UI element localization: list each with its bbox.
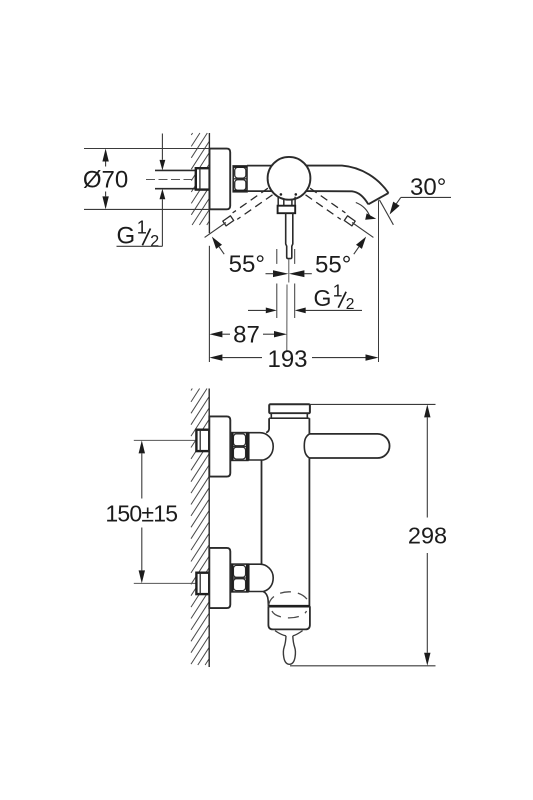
- outlet cup: [268, 606, 310, 629]
- 30 deg leader: [390, 197, 451, 214]
- 30 deg label: [410, 174, 446, 201]
- body neck: [266, 418, 309, 434]
- 55 deg centre arrows: [266, 270, 312, 277]
- svg-text:1: 1: [333, 280, 343, 300]
- lever body fillet: [304, 434, 309, 458]
- body left edge: [261, 460, 263, 564]
- 150 label: [105, 501, 177, 527]
- indicator dots: [280, 193, 298, 196]
- G1/2 label (bottom port): [314, 280, 355, 313]
- centreline bottom connection: [134, 582, 196, 584]
- G1/2 dimension arrows (bottom port): [248, 308, 362, 314]
- union nut at wall top: [196, 430, 209, 451]
- cap rim: [271, 413, 307, 418]
- 30 deg arc arrow: [356, 203, 376, 220]
- wall escutcheon top (front view): [209, 416, 230, 476]
- cartridge cap: [269, 404, 310, 413]
- 30 deg incline line: [379, 200, 393, 225]
- supply pipe (top view): [155, 170, 196, 188]
- hidden arc above outlet: [269, 592, 310, 606]
- 193 dimension: [209, 354, 378, 360]
- svg-text:150±15: 150±15: [105, 501, 177, 527]
- body right edge: [308, 458, 310, 606]
- dia70 extension lines: [84, 149, 209, 210]
- hex connection nut (top view): [233, 166, 247, 192]
- svg-text:87: 87: [233, 322, 260, 349]
- wall escutcheon bottom (front view): [209, 548, 230, 608]
- water droplet: [283, 636, 295, 664]
- svg-text:1: 1: [137, 217, 147, 237]
- wall face line (bottom view): [208, 389, 210, 668]
- outlet top thick line: [268, 605, 310, 608]
- hex connection nut bottom (front view): [231, 564, 248, 592]
- 298 label: [408, 523, 447, 549]
- 55 deg arrow left: [212, 237, 224, 255]
- mixer body circle (top view): [268, 157, 311, 200]
- s-union ball top (front view): [249, 433, 274, 461]
- union nut at wall (top view): [196, 168, 210, 189]
- svg-text:2: 2: [150, 232, 159, 250]
- wall escutcheon (top view): [210, 149, 231, 210]
- 298 extension top: [310, 403, 436, 405]
- svg-text:G: G: [314, 285, 332, 311]
- 87 dimension: [209, 331, 287, 337]
- hex connection nut top (front view): [231, 433, 248, 461]
- wall hatching (bottom view): [191, 389, 209, 666]
- swung lever position left (dashed): [205, 188, 273, 237]
- dia70 label: [83, 166, 128, 193]
- G1/2 arrows (supply): [160, 134, 166, 247]
- svg-text:30°: 30°: [410, 174, 446, 201]
- dia70 dimension arrows: [102, 149, 108, 210]
- spout tip extension line: [378, 200, 380, 362]
- svg-text:55°: 55°: [229, 251, 265, 278]
- 150 dimension line: [139, 440, 145, 583]
- 87 label: [233, 322, 260, 349]
- swung lever position right (dashed): [306, 188, 374, 237]
- svg-text:298: 298: [408, 523, 447, 549]
- faucet body (top view): [247, 166, 272, 192]
- svg-text:2: 2: [346, 296, 355, 313]
- pipe centerline (top view): [146, 179, 209, 181]
- centreline top connection: [134, 439, 196, 441]
- outlet transition: [263, 592, 268, 607]
- lever handle (front view): [309, 434, 389, 458]
- lever centreline: [287, 259, 289, 352]
- water stream funnel: [275, 631, 303, 636]
- wall face line (top view): [208, 133, 210, 362]
- spout (top view): [305, 166, 389, 205]
- G1/2 label (supply): [117, 217, 163, 250]
- hidden arc inside outlet: [272, 611, 307, 618]
- G1/2 extension lines (top view bottom port): [277, 249, 295, 318]
- 55 deg label left: [229, 251, 265, 278]
- svg-text:G: G: [117, 222, 136, 249]
- s-union ball bottom (front view): [249, 564, 274, 592]
- 55 deg arrow right: [354, 237, 366, 255]
- 55 deg label right: [315, 251, 351, 278]
- 298 extension bottom: [290, 665, 436, 667]
- lever handle (top view): [278, 197, 296, 259]
- svg-text:55°: 55°: [315, 251, 351, 278]
- svg-text:193: 193: [267, 346, 307, 373]
- wall hatching (top view): [191, 133, 209, 225]
- union nut at wall bottom: [196, 573, 209, 594]
- 298 dimension line: [424, 404, 430, 665]
- svg-text:Ø70: Ø70: [83, 166, 128, 193]
- 193 label: [267, 346, 307, 373]
